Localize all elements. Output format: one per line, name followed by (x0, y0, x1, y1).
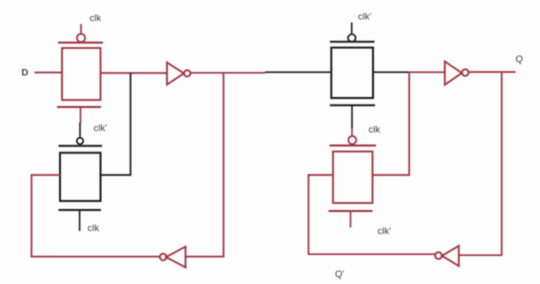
TG1 bottom gate bar (57, 106, 101, 108)
wire feedback right vertical (Q' side) (308, 174, 310, 255)
wire INV3 output to left vertical (31, 256, 160, 258)
wire TG1 output to INV1 (node X) (101, 72, 167, 74)
wire node Z to INV2 (red) (408, 71, 445, 73)
INV3 output bubble (160, 254, 167, 261)
TG1 top gate bar (58, 42, 103, 44)
svg-text:D: D (22, 68, 29, 79)
TG2 top gate bubble (77, 138, 83, 144)
wire TG2 right to node X (100, 174, 131, 176)
wire TG4 right to node Z vertical (373, 174, 411, 176)
wire INV2 output to Q (469, 71, 516, 73)
wire feedback left vertical (31, 174, 33, 257)
TG3 bottom gate stub (black part) (351, 105, 353, 128)
transmission gate TG1 body (62, 48, 101, 100)
TG1 top gate bubble (77, 34, 85, 42)
wire INV3 input from node Y (186, 256, 225, 258)
wire INV4 input from Q vertical (459, 254, 503, 256)
svg-text:Q': Q' (335, 269, 344, 280)
INV4 output bubble (435, 252, 442, 259)
TG2 top gate stub (black part) (79, 123, 81, 139)
TG4 bottom gate bar (329, 210, 373, 212)
TG3 top gate bar (330, 41, 375, 43)
wire INV1 output (node Y, red part) (190, 72, 265, 74)
TG4 top gate stub (red part) (351, 128, 353, 136)
wire TG2 left (feedback in) (31, 174, 61, 176)
svg-text:clk': clk' (94, 123, 108, 134)
inverter INV4 triangle (feedback, points left) (442, 246, 459, 266)
svg-text:clk: clk (369, 125, 381, 136)
wire node Y vertical down to INV3 (223, 73, 225, 257)
wire clk stub above TG1 (80, 24, 82, 34)
TG2 bottom gate bar (59, 209, 102, 211)
wire node X vertical junction down to TG2 (130, 73, 132, 175)
TG3 top gate stub (351, 23, 353, 34)
svg-text:clk': clk' (378, 226, 392, 237)
inverter INV3 triangle (feedback, points left) (166, 247, 186, 268)
TG3 bottom gate bar (330, 104, 375, 106)
wire Q vertical down to INV4 (501, 72, 503, 255)
inverter INV1 triangle (167, 62, 184, 84)
TG3 top gate bubble (348, 34, 356, 42)
transmission gate TG2 body (60, 153, 101, 201)
TG2 bottom gate stub (79, 210, 81, 231)
TG1 bottom gate stub (red part) (80, 107, 82, 123)
TG4 top gate bar (330, 145, 377, 147)
wire TG4 left (feedback in) (308, 174, 333, 176)
inverter INV2 triangle (445, 61, 462, 84)
wire TG3 output to node Z (black) (373, 71, 409, 73)
svg-text:clk: clk (90, 13, 102, 24)
svg-text:Q: Q (516, 54, 523, 65)
INV2 output bubble (462, 69, 469, 76)
wire INV4 output to feedback vertical (309, 253, 436, 255)
svg-text:clk': clk' (358, 12, 372, 23)
TG2 top gate bar (59, 145, 103, 147)
wire D input (35, 72, 63, 74)
TG4 bottom gate stub (350, 211, 352, 228)
TG4 top gate bubble (348, 136, 356, 144)
svg-text:clk: clk (88, 223, 100, 234)
transmission gate TG3 body (331, 48, 373, 98)
wire node Z vertical down to TG4 (408, 72, 410, 176)
INV1 output bubble (184, 70, 190, 76)
transmission gate TG4 body (333, 152, 373, 204)
wire node Y to TG3 (black part) (265, 71, 332, 73)
